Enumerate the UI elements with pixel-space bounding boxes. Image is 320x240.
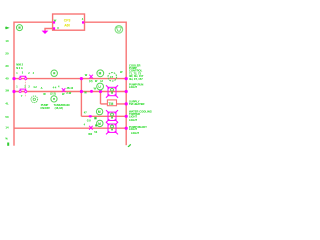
svg-text:(2-2): (2-2) (50, 92, 56, 96)
svg-text:Y: Y (21, 94, 23, 98)
svg-text:TM HEATER: TM HEATER (129, 102, 145, 106)
power feed arrow (42, 31, 49, 34)
svg-text:4L: 4L (5, 102, 9, 106)
svg-text:LIGHT: LIGHT (129, 114, 137, 118)
tag circle below row2 (51, 96, 57, 102)
wire row 2 (14, 91, 126, 93)
wire label rowB (95, 124, 97, 126)
right margin description block 3 (129, 100, 145, 107)
svg-text:50: 50 (5, 115, 9, 119)
svg-text:(U): (U) (89, 79, 93, 83)
feed wire to arrow (45, 29, 53, 31)
svg-text:M: M (98, 110, 101, 114)
svg-text:GU: GU (87, 119, 91, 123)
wire left bus vertical (13, 22, 15, 146)
wire top border right segment (85, 21, 127, 23)
svg-text:JB-10: JB-10 (66, 87, 73, 90)
svg-text:LIGHT: LIGHT (129, 127, 137, 131)
svg-text:A: A (41, 86, 43, 90)
right bus end tick (128, 144, 131, 147)
junction dot right rowB (125, 127, 128, 130)
junction dot right row1 (125, 77, 128, 80)
svg-text:20: 20 (5, 52, 9, 56)
svg-text:3H, 3T, 157: 3H, 3T, 157 (129, 77, 143, 81)
left bus end tick (7, 143, 9, 146)
svg-text:(16,18): (16,18) (55, 106, 63, 110)
drawing reference circle top-right (115, 26, 123, 34)
svg-text:M: M (99, 72, 102, 76)
wire marker X row2 (62, 88, 66, 92)
svg-text:CN/OFF: CN/OFF (40, 106, 50, 110)
svg-text:LIGHT: LIGHT (129, 118, 137, 122)
wire top border left segment (14, 21, 53, 23)
wire row A (81, 115, 126, 117)
svg-text:40: 40 (5, 76, 9, 80)
wire marker X row1 (89, 75, 93, 79)
svg-text:CP3: CP3 (64, 19, 71, 23)
control panel box CP3 (53, 14, 85, 30)
left margin wire number labels (5, 39, 9, 141)
svg-text:N08 2: N08 2 (16, 62, 23, 66)
breaker CB1 row1 (20, 76, 26, 78)
wire row TM (101, 103, 127, 105)
wire row 1 (14, 78, 126, 80)
pin dot CP3 left 2 (53, 27, 55, 29)
svg-text:30: 30 (5, 64, 9, 68)
right margin description block 1 (129, 63, 144, 81)
tag circle row1 mid (51, 70, 57, 76)
svg-text:4-2: 4-2 (33, 86, 37, 89)
svg-text:LIGHT: LIGHT (129, 85, 137, 89)
svg-text:3H: 3H (5, 89, 9, 93)
junction dot left row1 (12, 77, 15, 80)
wire marker dot rowA (89, 115, 92, 117)
junction dot right row2 (125, 90, 128, 93)
right margin description block 4 (129, 109, 152, 122)
svg-text:N 2 A: N 2 A (16, 66, 23, 70)
solenoid box row2 (106, 85, 118, 97)
junction dot right rowTM (125, 102, 128, 105)
svg-text:2-W: 2-W (66, 91, 71, 95)
junction dot drop row2 (99, 90, 102, 93)
breaker CB2 row2 (20, 89, 26, 91)
wire marker X rowB (89, 126, 93, 130)
junction dot link row2 (80, 90, 83, 93)
motor M row1 (108, 73, 117, 82)
source arrow symbol left edge (6, 26, 10, 29)
svg-text:10: 10 (5, 39, 9, 43)
wire row B bottom (14, 127, 126, 129)
breaker linkage dashed (24, 77, 26, 97)
svg-text:47: 47 (110, 75, 114, 79)
tag circle M1 row1 right (97, 70, 104, 77)
junction dot link row1 (80, 77, 83, 80)
wire vertical link rows 1-A (80, 79, 82, 117)
svg-text:C: C (57, 26, 59, 30)
svg-text:W3: W3 (88, 132, 92, 136)
svg-text:4-4: 4-4 (53, 85, 57, 89)
junction dot right rowA (125, 115, 128, 118)
svg-text:14: 14 (5, 126, 9, 130)
ground reference circle top-left (17, 25, 23, 31)
junction dot row2 mid (90, 90, 93, 93)
tag circle row2 right (97, 83, 104, 90)
svg-text:TM: TM (108, 102, 113, 106)
solenoid box B (106, 122, 118, 134)
svg-text:M: M (98, 122, 101, 126)
right margin description block 5 (129, 125, 147, 135)
pin dot CP3 left 1 (53, 21, 55, 23)
heater box TM (107, 100, 116, 106)
junction dot left row2 (12, 90, 15, 93)
wire label rowA (94, 117, 96, 119)
svg-text:LIGHT: LIGHT (131, 131, 139, 135)
solenoid box A (106, 110, 118, 122)
target circle below CB2 (31, 96, 38, 103)
wire right bus vertical (125, 22, 127, 146)
wire vertical drop row2 to TM (100, 92, 102, 104)
right margin description block 2 (129, 83, 143, 90)
svg-text:A60: A60 (64, 24, 70, 28)
tag circle rowA (96, 108, 102, 114)
tag circle rowB (97, 120, 103, 126)
pin dot CP3 right (82, 21, 84, 23)
